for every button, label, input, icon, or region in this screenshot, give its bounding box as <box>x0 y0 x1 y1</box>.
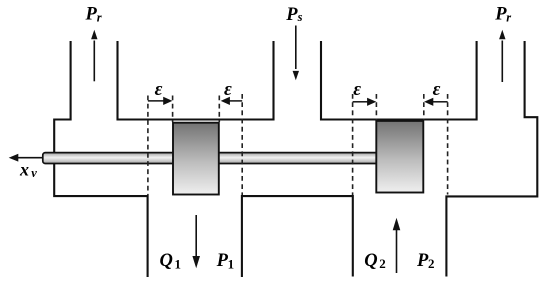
svg-text:s: s <box>297 10 303 24</box>
svg-text:2: 2 <box>428 256 435 271</box>
svg-text:ε: ε <box>433 79 441 100</box>
svg-text:ε: ε <box>353 79 361 100</box>
svg-text:v: v <box>31 166 37 180</box>
svg-text:ε: ε <box>155 79 163 100</box>
svg-text:x: x <box>19 159 29 179</box>
svg-text:P: P <box>285 5 298 25</box>
svg-text:1: 1 <box>175 256 182 271</box>
svg-text:Q: Q <box>160 251 173 271</box>
svg-text:2: 2 <box>379 256 386 271</box>
svg-text:r: r <box>97 11 102 25</box>
svg-text:P: P <box>85 5 98 25</box>
svg-text:Q: Q <box>364 251 377 271</box>
svg-text:1: 1 <box>228 256 235 271</box>
svg-text:r: r <box>506 11 511 25</box>
svg-text:ε: ε <box>224 79 232 100</box>
